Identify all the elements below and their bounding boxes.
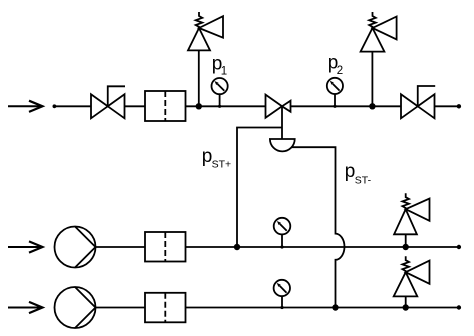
wire (SV1 stem) [198, 50, 200, 106]
control valve CV (top line) [266, 95, 291, 118]
node (top outlet) [457, 104, 461, 108]
node (middle outlet) [457, 245, 461, 249]
diaphragm actuator (dome) [270, 139, 295, 151]
wire (SV2 stem) [371, 52, 373, 107]
node (top inlet) [53, 104, 57, 108]
junction node (pST- tap on bottom line) [332, 304, 338, 310]
pump M1 (centrifugal pump, middle line) [55, 227, 96, 268]
junction node (safety valve SV3 branch) [403, 244, 409, 250]
wire (V2 to outlet) [435, 105, 459, 107]
safety valve SV3 [394, 193, 429, 234]
filter F3 (bottom line) [145, 293, 186, 323]
wire (pump M1 to filter F2) [96, 246, 146, 248]
safety valve SV2 [361, 12, 397, 52]
wire (SV4 stem) [405, 296, 407, 307]
filter F1 (top line) [145, 91, 186, 121]
gauge P2 [327, 78, 343, 108]
gauge G3 (middle line) [274, 218, 291, 249]
wire (pST+ sensing line) [237, 128, 282, 248]
safety valve SV1 [188, 12, 223, 50]
wire (actuator stem) [281, 106, 283, 139]
inlet arrow (top line) [8, 101, 43, 112]
gauge G4 (bottom line) [274, 280, 290, 309]
node (bottom outlet) [457, 305, 461, 309]
filter F2 (middle line) [145, 232, 186, 262]
valve V1 (manual shut-off valve, top line) [91, 86, 125, 118]
wire (inlet node to valve V1) [54, 105, 91, 107]
wire (F1 to control valve) [186, 105, 266, 107]
wire (pST- sensing line with bridge over middle line) [282, 147, 344, 307]
svg-text:ST+: ST+ [212, 159, 232, 171]
svg-text:p: p [345, 161, 356, 182]
svg-text:ST-: ST- [355, 175, 372, 187]
inlet arrow (middle line) [8, 241, 43, 252]
wire (SV3 stem) [405, 234, 407, 247]
wire (V1 to filter F1) [125, 105, 146, 107]
pump M2 (centrifugal pump, bottom line) [55, 287, 96, 328]
svg-text:1: 1 [221, 65, 227, 77]
valve V2 (manual shut-off valve, top right) [401, 86, 435, 118]
junction node (safety valve SV2 branch) [369, 103, 375, 109]
wire (pump M2 to filter F3) [96, 307, 146, 309]
inlet arrow (bottom line) [8, 302, 43, 313]
wire (middle line to outlet) [186, 246, 459, 248]
junction node (safety valve SV1 branch) [196, 103, 202, 109]
svg-text:2: 2 [337, 65, 343, 77]
safety valve SV4 [394, 256, 430, 296]
wire (bottom line to outlet) [186, 307, 459, 309]
junction node (pST+ tap on middle line) [234, 244, 240, 250]
gauge P1 [212, 78, 228, 108]
wire (control valve to valve V2) [291, 105, 402, 107]
junction node (safety valve SV4 branch) [403, 304, 409, 310]
